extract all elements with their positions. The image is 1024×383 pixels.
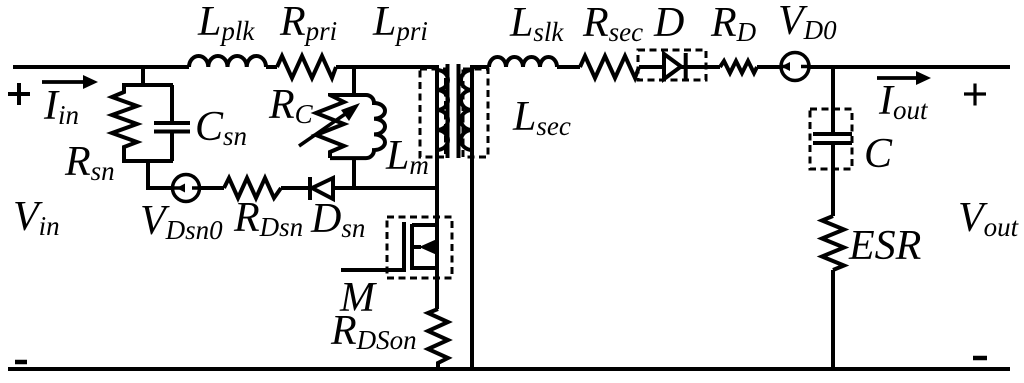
- resistor RDSon: [428, 309, 448, 369]
- wire ESR to bottom bus: [831, 270, 835, 369]
- box diode D dashed: [638, 50, 706, 80]
- box mosfet dashed: [387, 217, 452, 278]
- label M: [340, 277, 375, 319]
- wire Lslk to Rsec: [557, 65, 580, 69]
- resistor RC variable: [316, 93, 344, 158]
- box capacitor C dashed: [810, 109, 852, 169]
- label Csn: [195, 106, 247, 148]
- minus output terminal: [973, 356, 987, 361]
- resistor Rpri: [277, 56, 336, 78]
- plus output terminal: [964, 84, 986, 106]
- inductor Lplk: [189, 56, 266, 67]
- label VD0: [778, 0, 837, 42]
- label RC: [269, 84, 313, 126]
- label RDsn: [234, 197, 303, 239]
- wire drain vertical: [435, 65, 439, 309]
- wire snubber top stub: [141, 67, 145, 85]
- label Lsec: [513, 96, 571, 138]
- node primary junction vertical: [352, 67, 356, 95]
- inductor Lm: [330, 95, 385, 158]
- box secondary winding dashed: [463, 69, 488, 157]
- wire snubber return stub: [146, 159, 172, 188]
- wire RC-Lm bottom tie: [352, 158, 356, 188]
- transformer primary winding: [437, 70, 448, 150]
- wire RDsn to Dsn: [281, 186, 310, 190]
- wire RD to VD0: [757, 65, 783, 69]
- source VD0: [781, 53, 811, 81]
- transformer secondary winding: [461, 70, 472, 150]
- inductor Lslk: [489, 57, 557, 67]
- diode Dsn: [310, 177, 333, 200]
- label Rsn: [65, 141, 115, 183]
- label VDsn0: [140, 200, 223, 242]
- wire top output bus: [809, 65, 1010, 69]
- label Dsn: [311, 198, 365, 240]
- wire top input bus: [13, 65, 439, 69]
- label Rpri: [280, 1, 337, 43]
- minus input terminal: [15, 360, 27, 365]
- wire Rsec to RD: [639, 65, 720, 69]
- label Iout: [879, 80, 928, 122]
- label Rsec: [583, 2, 643, 44]
- label D: [654, 2, 684, 44]
- wire secondary top: [472, 65, 489, 69]
- source VDsn0: [172, 175, 203, 202]
- label Vin: [13, 196, 60, 238]
- capacitor Csn: [154, 85, 190, 161]
- label Lslk: [510, 2, 563, 44]
- transistor M mosfet: [341, 222, 438, 272]
- label RDSon: [331, 310, 417, 352]
- wire snubber box bottom: [122, 159, 173, 163]
- box primary winding dashed: [420, 69, 446, 157]
- plus input terminal: [8, 83, 30, 105]
- arrow RC adjustment: [299, 103, 360, 146]
- label ESR: [849, 225, 921, 267]
- arrow Iin: [42, 75, 98, 89]
- label C output: [864, 133, 892, 175]
- resistor ESR: [822, 216, 844, 270]
- label Lpri: [373, 1, 428, 43]
- label RD: [711, 2, 756, 44]
- arrow Iout: [877, 71, 931, 85]
- resistor RD: [720, 61, 757, 73]
- transformer core: [448, 64, 459, 158]
- label Vout: [958, 197, 1018, 239]
- label Iin: [44, 85, 79, 127]
- label Lplk: [198, 1, 254, 43]
- resistor Rsec: [580, 56, 639, 78]
- wire VDsn0 to RDsn: [199, 186, 224, 190]
- label Lm: [386, 135, 429, 177]
- capacitor C output: [813, 67, 852, 216]
- wire bottom bus: [8, 367, 1010, 371]
- diode D: [664, 53, 686, 80]
- resistor Rsn: [112, 83, 137, 161]
- wire Dsn to drain node: [333, 186, 437, 190]
- wire secondary bottom: [470, 65, 474, 369]
- wire snubber box top: [122, 83, 173, 87]
- resistor RDsn: [224, 178, 281, 198]
